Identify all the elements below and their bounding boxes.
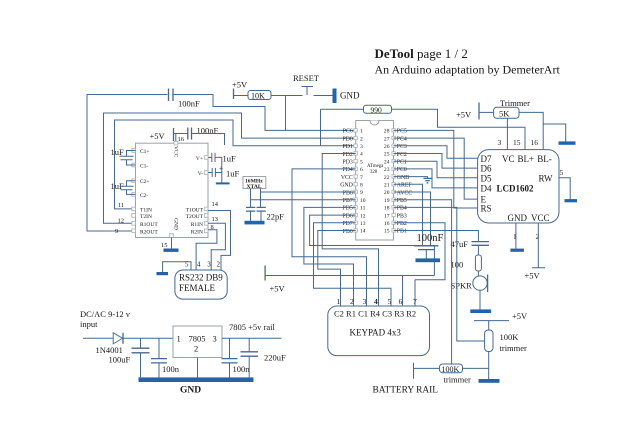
svg-text:input: input <box>80 319 98 329</box>
wire: PC1 to LCD D5 <box>394 161 478 178</box>
svg-text:7: 7 <box>360 175 363 181</box>
svg-text:D4: D4 <box>481 183 492 193</box>
wire: 22pF caps to ground <box>251 211 262 221</box>
svg-text:2: 2 <box>360 136 363 142</box>
svg-text:100K: 100K <box>442 365 460 374</box>
U1 pin pads left <box>132 149 136 233</box>
svg-text:GND: GND <box>340 183 353 189</box>
svg-text:PB3: PB3 <box>397 213 407 219</box>
wire: 47uF to 100 ohm <box>477 245 479 255</box>
svg-text:PB1: PB1 <box>397 229 407 235</box>
svg-text:T2IN: T2IN <box>140 214 152 220</box>
svg-text:12: 12 <box>360 213 366 219</box>
svg-text:C1+: C1+ <box>140 149 150 155</box>
ground bar (trimmers) <box>479 379 500 383</box>
diode D1 1N4001 <box>96 333 124 355</box>
capacitor C9 47uF <box>451 239 490 249</box>
svg-text:27: 27 <box>384 136 390 142</box>
svg-text:1uF: 1uF <box>226 169 240 179</box>
svg-text:VCC: VCC <box>341 175 353 181</box>
svg-text:13: 13 <box>360 221 366 227</box>
resistor R2 990 (backlight) <box>364 105 392 114</box>
wire: PB1 to 47uF <box>394 231 479 242</box>
svg-text:11: 11 <box>360 206 366 212</box>
wire: U1 pin15 to ground <box>171 238 173 249</box>
ground bar (LCD pin1) <box>510 249 524 252</box>
wire: PC3 to LCD D7 <box>394 146 478 158</box>
wire: U2 pin22 GND stub <box>394 177 428 178</box>
svg-text:PB5: PB5 <box>397 198 407 204</box>
svg-text:DeTool page 1 / 2: DeTool page 1 / 2 <box>375 46 468 61</box>
U1 pin pad 16 top and 15 bottom <box>170 141 178 237</box>
wire: PC4 to LCD E <box>394 138 478 199</box>
wire: T1IN to pin3 PD1 TXD <box>115 120 356 209</box>
wire: 990 left to PD1 net <box>321 109 364 146</box>
svg-text:PD0: PD0 <box>342 136 352 142</box>
svg-text:1uF: 1uF <box>111 147 125 157</box>
svg-text:XTAL: XTAL <box>247 184 262 190</box>
capacitor C3 1uF (V+) <box>208 153 236 184</box>
svg-text:19: 19 <box>384 198 390 204</box>
svg-text:6: 6 <box>360 167 363 173</box>
keypad pin numbers <box>337 297 418 306</box>
svg-text:PD4: PD4 <box>342 167 352 173</box>
svg-text:SPKR: SPKR <box>451 281 473 291</box>
connector J1 RS232 DB9 FEMALE <box>175 270 227 299</box>
svg-text:3: 3 <box>360 144 363 150</box>
U2 pin pads right <box>392 129 395 232</box>
U2 pin pads left <box>354 129 357 232</box>
svg-text:47uF: 47uF <box>451 239 469 249</box>
ground flag (reset button) <box>333 89 360 104</box>
svg-text:VCC: VCC <box>173 146 179 158</box>
svg-text:18: 18 <box>384 206 390 212</box>
wire: +5V to pin16 <box>174 134 188 142</box>
ground bar (DB9 pin5) <box>157 272 169 275</box>
svg-text:100nF: 100nF <box>178 99 200 109</box>
svg-text:C2+: C2+ <box>140 179 150 185</box>
wire: PB0 to keypad pin1 <box>318 231 356 307</box>
svg-text:28: 28 <box>384 129 390 135</box>
svg-text:R2OUT: R2OUT <box>140 229 158 235</box>
wire: LCD pin1 to ground <box>513 223 517 249</box>
svg-text:26: 26 <box>384 144 390 150</box>
title <box>375 46 561 77</box>
svg-text:3: 3 <box>498 138 502 147</box>
svg-text:8: 8 <box>360 183 363 189</box>
svg-text:GND: GND <box>180 386 201 396</box>
node: +5V flag at U1 VCC <box>150 128 174 141</box>
svg-text:VC: VC <box>502 154 515 164</box>
wire: R1OUT to pin2 PD0 RXD <box>104 113 356 223</box>
wire: diode to 7805 <box>123 337 173 339</box>
svg-text:328: 328 <box>370 170 378 175</box>
svg-text:7805 +5v rail: 7805 +5v rail <box>229 322 276 332</box>
svg-text:An Arduino adaptation by Demet: An Arduino adaptation by DemeterArt <box>375 63 561 77</box>
junction: reset node down to pin 1 <box>285 96 287 131</box>
capacitor C-reset 100nF <box>169 89 201 109</box>
capacitor C7 22pF (right) <box>257 207 266 211</box>
capacitor C5 100nF (U1 Vcc decoupling) <box>188 126 219 140</box>
svg-text:15: 15 <box>513 138 521 147</box>
wire: 100 ohm to speaker <box>477 271 479 276</box>
svg-text:T2OUT: T2OUT <box>186 214 204 220</box>
svg-text:LCD1602: LCD1602 <box>497 183 535 193</box>
svg-text:15: 15 <box>384 229 390 235</box>
node: +5V flag (reset pullup) <box>232 80 248 100</box>
capacitor C2 1uF (left bottom) <box>111 181 136 195</box>
wire: R2OUT to reset capacitor to RESET node <box>87 95 168 232</box>
ground bar (charge pump caps) <box>216 182 230 184</box>
svg-text:GND: GND <box>508 213 528 223</box>
svg-text:RS232 DB9: RS232 DB9 <box>179 273 223 283</box>
wire: speaker to ground <box>479 290 481 309</box>
svg-text:PB4: PB4 <box>397 206 407 212</box>
svg-text:D7: D7 <box>481 154 492 164</box>
wire: PD4 to keypad pin3 <box>292 169 367 306</box>
svg-text:+5V: +5V <box>150 131 166 141</box>
ground rail bar GND <box>139 377 254 395</box>
svg-text:R1OUT: R1OUT <box>140 222 158 228</box>
svg-text:15: 15 <box>161 242 168 249</box>
wire: +5V to 5K <box>479 111 494 113</box>
svg-text:100n: 100n <box>162 364 180 374</box>
svg-text:PC1: PC1 <box>397 160 407 166</box>
svg-text:T1IN: T1IN <box>140 208 152 214</box>
svg-text:V+: V+ <box>196 156 203 162</box>
svg-text:24: 24 <box>384 159 390 165</box>
wire: RV3 left to battery rail stub <box>414 363 440 379</box>
wire: PD6 to keypad pin6 (right loop) <box>310 215 435 306</box>
svg-text:14: 14 <box>212 201 219 208</box>
capacitor C10 100uF <box>109 338 150 377</box>
ground bar (xtal caps) <box>245 221 265 225</box>
svg-text:25: 25 <box>384 152 390 158</box>
U2 left pin net labels <box>340 129 353 235</box>
svg-text:2: 2 <box>536 232 540 241</box>
svg-text:C2 R1 C1 R4 C3 R3 R2: C2 R1 C1 R4 C3 R3 R2 <box>334 309 416 319</box>
wire: PD2 to keypad pin4 <box>322 154 378 307</box>
svg-text:RESET: RESET <box>293 73 320 83</box>
display LCD1602 <box>478 150 559 223</box>
svg-text:1: 1 <box>337 297 341 306</box>
wire: +5V rail along keypad <box>265 275 434 277</box>
ground (U2 pin22 small) <box>424 178 432 182</box>
svg-text:6: 6 <box>399 297 403 306</box>
svg-text:PD6: PD6 <box>342 213 352 219</box>
wire: AREF to 100nF <box>394 184 423 245</box>
node: +5V flag (keypad rail) <box>265 266 285 294</box>
U2 pin numbers inside <box>360 129 390 235</box>
svg-text:D6: D6 <box>481 164 492 174</box>
wire: reset cap to pin1 PC6 <box>174 95 356 131</box>
svg-text:9: 9 <box>360 190 363 196</box>
wire: R1IN pin13 to DB9 pin3 <box>208 223 225 270</box>
wire: PC0 to LCD D4 <box>394 169 478 188</box>
node: +5V flag (trimmer top) <box>474 311 528 330</box>
regulator U3 7805 <box>173 326 222 358</box>
label DC/AC input <box>80 309 131 329</box>
wire: PD5 to keypad pin2 <box>304 207 356 306</box>
svg-text:100nF: 100nF <box>417 233 444 244</box>
svg-text:V-: V- <box>198 171 203 177</box>
svg-text:GND: GND <box>397 175 410 181</box>
wire: LCD pin5 RW to ground <box>559 168 570 199</box>
wire: xtal to PB7 <box>251 199 356 201</box>
wire: DB9 pin5 to ground <box>163 262 191 272</box>
wire: 7805 out to +5v rail <box>222 337 282 339</box>
svg-text:5: 5 <box>388 297 392 306</box>
svg-text:PB2: PB2 <box>397 221 407 227</box>
svg-text:12: 12 <box>118 218 125 225</box>
wire: PB5 to battery-rail 100K <box>394 200 452 364</box>
svg-text:BL-: BL- <box>537 154 552 164</box>
svg-text:PB0: PB0 <box>343 229 353 235</box>
svg-text:20: 20 <box>384 190 390 196</box>
U2 right pin net labels <box>397 129 413 235</box>
svg-text:100K: 100K <box>500 332 520 342</box>
ground bar (U1 pin15) <box>164 249 179 252</box>
capacitor C8 100nF (AREF/AVCC) <box>414 233 444 259</box>
U1 pin numbers <box>115 136 219 249</box>
potentiometer RV3 100K trimmer (battery rail) <box>440 364 472 385</box>
wire: PB2 to keypad pin7 <box>394 223 446 306</box>
op-amp/IC U1 MAX232 body <box>136 143 209 237</box>
svg-text:VCC: VCC <box>531 213 550 223</box>
svg-text:DC/AC 9-12 v: DC/AC 9-12 v <box>80 309 131 319</box>
svg-text:C1-: C1- <box>140 164 148 170</box>
wire: PC2 to LCD D6 <box>394 154 478 169</box>
capacitor C11 100n (input) <box>151 338 180 377</box>
wire: T1OUT pin14 to DB9 pin2 <box>208 211 231 271</box>
svg-text:5K: 5K <box>499 108 510 118</box>
svg-text:13: 13 <box>212 216 219 223</box>
capacitor C4 1uF (V-) <box>208 165 240 179</box>
IC U2 ATmega328 body <box>356 121 394 241</box>
U2 notch <box>370 121 379 126</box>
svg-text:RW: RW <box>539 173 554 183</box>
svg-text:3: 3 <box>207 261 211 269</box>
potentiometer RV1 5K <box>494 98 530 119</box>
svg-text:10K: 10K <box>251 92 265 101</box>
svg-text:AVCC: AVCC <box>397 190 412 196</box>
ground bar (C8) <box>416 258 441 262</box>
svg-text:+5V: +5V <box>456 110 472 120</box>
capacitor C12 100n (output) <box>222 338 251 377</box>
svg-text:+5V: +5V <box>525 271 541 281</box>
svg-text:5: 5 <box>360 159 363 165</box>
svg-text:7: 7 <box>413 297 417 306</box>
capacitor C13 220uF <box>241 338 287 377</box>
wire: 5K right to LCD pin16 and ground <box>519 112 566 149</box>
svg-text:ATmega: ATmega <box>367 164 384 169</box>
svg-text:5: 5 <box>560 168 564 177</box>
svg-text:1N4001: 1N4001 <box>96 345 123 355</box>
wire: PD7 to keypad pin5 <box>314 223 392 306</box>
svg-text:BATTERY RAIL: BATTERY RAIL <box>373 386 439 396</box>
wire: button to GND <box>314 95 334 97</box>
svg-text:D5: D5 <box>481 173 492 183</box>
wire: input to diode <box>83 337 113 339</box>
wire: PC5 to LCD RS <box>394 130 478 208</box>
wire: xtal to PB6 <box>261 191 356 193</box>
wire: 10K to reset button <box>271 95 303 97</box>
svg-text:R1IN: R1IN <box>191 222 203 228</box>
crystal X1 16MHz box <box>243 177 266 191</box>
node: +5V flag (5K pot) <box>456 103 479 120</box>
svg-text:1: 1 <box>177 334 181 344</box>
resistor R-reset 10K <box>248 91 271 101</box>
svg-text:GND: GND <box>173 218 179 230</box>
ground bar (speaker) <box>470 309 491 313</box>
svg-text:100n: 100n <box>233 364 251 374</box>
svg-text:C2-: C2- <box>140 193 148 199</box>
capacitor C6 22pF (left) <box>246 207 255 211</box>
potentiometer RV2 100K trimmer (vertical) <box>485 330 527 353</box>
svg-text:4: 4 <box>360 152 363 158</box>
wire: 7805 pin2 to ground <box>197 358 199 378</box>
svg-text:23: 23 <box>384 167 390 173</box>
svg-text:5: 5 <box>185 261 189 269</box>
ground bar (LCD RW) <box>565 199 578 202</box>
wire: 5K wiper to LCD pin3 <box>506 118 508 149</box>
svg-text:PD2: PD2 <box>342 152 352 158</box>
resistor R3 100 <box>451 255 482 271</box>
wire: LCD pin2 to +5V <box>525 223 546 281</box>
svg-text:FEMALE: FEMALE <box>179 283 216 293</box>
U1 pin pads right <box>204 156 208 233</box>
svg-text:990: 990 <box>371 105 383 114</box>
wire: AVCC to 100nF <box>394 192 431 246</box>
svg-text:trimmer: trimmer <box>444 375 472 385</box>
svg-text:PC5: PC5 <box>397 129 407 135</box>
capacitor C1 1uF (left top) <box>111 147 136 165</box>
svg-text:100uF: 100uF <box>109 355 131 365</box>
svg-text:4: 4 <box>374 297 378 306</box>
svg-text:11: 11 <box>118 202 124 209</box>
svg-text:16: 16 <box>178 136 185 143</box>
speaker SPKR <box>451 275 488 293</box>
svg-text:PB6: PB6 <box>343 190 353 196</box>
U2 part label ATmega328 <box>367 164 384 175</box>
svg-text:16: 16 <box>384 221 390 227</box>
wire: 100nF to gnd run <box>192 134 225 146</box>
svg-text:PB7: PB7 <box>343 198 353 204</box>
svg-text:14: 14 <box>360 229 366 235</box>
svg-text:1: 1 <box>360 129 363 135</box>
svg-text:21: 21 <box>384 183 390 189</box>
svg-text:2: 2 <box>350 297 354 306</box>
svg-text:PD7: PD7 <box>342 221 352 227</box>
wire: RV3 right to ground <box>463 367 489 369</box>
svg-text:GND: GND <box>340 91 360 101</box>
svg-text:PC3: PC3 <box>397 144 407 150</box>
svg-text:22: 22 <box>384 175 390 181</box>
svg-text:3: 3 <box>363 297 367 306</box>
svg-text:+: + <box>219 165 223 173</box>
svg-text:PC2: PC2 <box>397 152 407 158</box>
svg-text:3: 3 <box>213 334 217 344</box>
svg-text:RS: RS <box>481 204 492 214</box>
svg-text:PD1: PD1 <box>342 144 352 150</box>
svg-text:PC4: PC4 <box>397 136 407 142</box>
svg-text:Trimmer: Trimmer <box>500 98 530 108</box>
svg-text:2: 2 <box>194 344 198 354</box>
svg-text:AREF: AREF <box>397 183 413 189</box>
push button RESET <box>302 87 314 96</box>
wire: 990 right to LCD pin15 BL+ <box>392 109 526 149</box>
ground bar (LCD BL-) <box>559 141 576 144</box>
svg-text:10: 10 <box>360 198 366 204</box>
svg-text:4: 4 <box>197 261 201 269</box>
svg-text:16: 16 <box>531 138 539 147</box>
wire: +5V to 10K <box>234 95 249 97</box>
svg-text:BL+: BL+ <box>518 154 535 164</box>
svg-text:PD3: PD3 <box>342 160 352 166</box>
svg-text:T1OUT: T1OUT <box>186 208 204 214</box>
wire: xtal legs <box>251 189 261 208</box>
svg-text:PC0: PC0 <box>397 167 407 173</box>
svg-text:9: 9 <box>115 228 118 235</box>
wire: PB4 to trimmer wiper <box>394 207 485 341</box>
svg-text:1uF: 1uF <box>223 154 237 164</box>
svg-text:22pF: 22pF <box>267 212 285 222</box>
svg-text:220uF: 220uF <box>264 353 286 363</box>
svg-text:+5V: +5V <box>512 311 528 321</box>
svg-text:2: 2 <box>217 261 221 269</box>
svg-text:PC6: PC6 <box>343 129 353 135</box>
LCD top pin numbers 3 15 16 <box>498 138 539 147</box>
wire: R2IN pin8 to DB9 pin4 <box>196 230 217 270</box>
svg-text:+5V: +5V <box>270 284 286 294</box>
svg-text:R2IN: R2IN <box>191 229 203 235</box>
connector KEYPAD 4x3 <box>328 306 430 356</box>
svg-text:KEYPAD 4x3: KEYPAD 4x3 <box>350 328 402 338</box>
svg-text:7805: 7805 <box>189 334 206 344</box>
svg-text:+5V: +5V <box>232 80 248 90</box>
DB9 pin number labels <box>185 261 221 269</box>
svg-text:17: 17 <box>384 213 390 219</box>
wire: trimmer bottom to ground <box>488 352 490 380</box>
svg-text:PD5: PD5 <box>342 206 352 212</box>
U1 internal pin names <box>140 146 204 235</box>
svg-text:trimmer: trimmer <box>500 343 528 353</box>
